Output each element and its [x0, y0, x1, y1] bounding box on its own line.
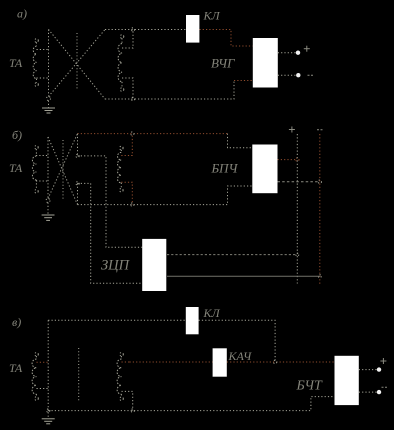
wire crossover diagonal 1	[49, 30, 106, 100]
wire ZTsP output 1	[167, 254, 297, 256]
wire secondary bottom tap (v)	[122, 391, 133, 410]
ground (b)	[42, 199, 55, 221]
junction (b top)	[131, 132, 134, 135]
wire secondary bottom tap	[122, 78, 133, 99]
wire secondary top stub (v)	[122, 361, 130, 363]
wire secondary bottom tap (b)	[121, 182, 132, 204]
label minus (b)	[317, 129, 324, 131]
wire DC bus minus	[319, 134, 321, 284]
svg-text:КЛ: КЛ	[203, 306, 221, 320]
junction	[131, 97, 134, 100]
wire tap lower to ZTsP	[77, 183, 79, 204]
wire top rail	[105, 29, 186, 31]
wire primary bottom stub	[37, 77, 49, 79]
wire to ZTsP input 2	[78, 183, 143, 283]
contactor block KACh	[213, 348, 227, 376]
label plus (b)	[289, 127, 295, 133]
junction (v bottom)	[131, 409, 134, 412]
wire bottom rail	[105, 81, 234, 100]
wire primary top stub	[37, 49, 49, 51]
wire BPCh output minus	[278, 181, 320, 183]
junction (b tap upper)	[76, 154, 79, 157]
ground	[42, 97, 55, 114]
wire primary stubs (v)	[37, 361, 49, 363]
transformer TA secondary winding	[118, 35, 124, 92]
wire secondary top tap	[122, 30, 133, 49]
generator block VChG	[253, 38, 278, 88]
junction (BPCh out plus)	[296, 158, 299, 161]
transformer TA core	[76, 33, 78, 90]
wire primary stubs (b)	[36, 155, 48, 157]
label minus (v)	[382, 386, 389, 388]
contactor block KL (v)	[186, 307, 199, 334]
ground (v)	[42, 412, 55, 424]
label plus (v)	[380, 358, 386, 364]
junction (bus minus / ZTsP out 2)	[318, 275, 321, 278]
contactor block KL	[186, 15, 199, 43]
transformer TA primary winding	[33, 39, 38, 87]
wire primary bus (v)	[47, 320, 49, 410]
transformer secondary winding (v)	[117, 353, 123, 401]
wire tap upper to ZTsP	[77, 134, 79, 156]
transformer primary winding (v)	[32, 353, 38, 401]
transformer secondary winding (b)	[118, 146, 124, 192]
svg-text:КАЧ: КАЧ	[228, 349, 253, 363]
output wire minus (v)	[359, 391, 377, 393]
wire secondary top tap (b)	[121, 134, 132, 156]
wire DC bus plus	[296, 134, 298, 284]
wire mid rail (v)	[130, 361, 213, 363]
svg-text:ТА: ТА	[9, 161, 23, 175]
wire primary bus (b)	[47, 137, 49, 199]
terminal minus	[296, 73, 300, 77]
junction (b tap lower)	[76, 182, 79, 185]
junction (bus plus / ZTsP out 1)	[296, 253, 299, 256]
wire top rail (b)	[78, 133, 228, 135]
charging block ZTsP	[142, 239, 166, 291]
svg-text:б): б)	[12, 128, 22, 142]
label plus	[304, 46, 310, 52]
junction (v ground)	[47, 409, 50, 412]
wire primary bus	[48, 30, 50, 97]
converter block BPCh	[252, 145, 277, 194]
wire top rail (v)	[48, 319, 186, 321]
wire step into BPCh	[228, 134, 253, 148]
output wire plus	[278, 52, 296, 54]
svg-text:ТА: ТА	[9, 56, 23, 70]
svg-text:БПЧ: БПЧ	[211, 161, 239, 176]
wire crossover diagonal 2	[49, 30, 106, 97]
terminal minus (v)	[377, 390, 381, 394]
generator block BChT	[335, 356, 359, 405]
wire crossover diagonal 1 (b)	[48, 137, 78, 205]
svg-text:ТА: ТА	[9, 361, 23, 375]
wire ZTsP output 2	[167, 275, 320, 277]
junction	[131, 28, 134, 31]
label minus	[308, 74, 315, 76]
output wire minus	[278, 74, 296, 76]
wire BPCh output plus	[278, 159, 298, 161]
transformer core (v)	[78, 348, 80, 401]
wire crossover diagonal 2 (b)	[48, 134, 78, 199]
svg-text:ЗЦП: ЗЦП	[101, 258, 131, 274]
wire bottom rail (v)	[48, 397, 334, 411]
wire bottom rail (b)	[78, 186, 253, 205]
junction (v mid)	[273, 360, 276, 363]
terminal plus (v)	[377, 367, 381, 371]
svg-text:а): а)	[17, 7, 27, 21]
junction (b bottom)	[131, 203, 134, 206]
transformer core (b)	[62, 140, 64, 200]
wire to ZTsP input 1	[78, 156, 143, 247]
wire top rail after block KL	[199, 30, 252, 47]
svg-text:КЛ: КЛ	[203, 9, 221, 23]
svg-text:в): в)	[12, 315, 21, 329]
junction (BPCh out minus)	[318, 180, 321, 183]
terminal plus	[296, 51, 300, 55]
output wire plus (v)	[359, 369, 377, 371]
transformer primary winding (b)	[32, 146, 38, 194]
svg-text:БЧТ: БЧТ	[296, 379, 324, 394]
svg-text:ВЧГ: ВЧГ	[211, 56, 235, 71]
wire into generator block	[234, 80, 253, 82]
